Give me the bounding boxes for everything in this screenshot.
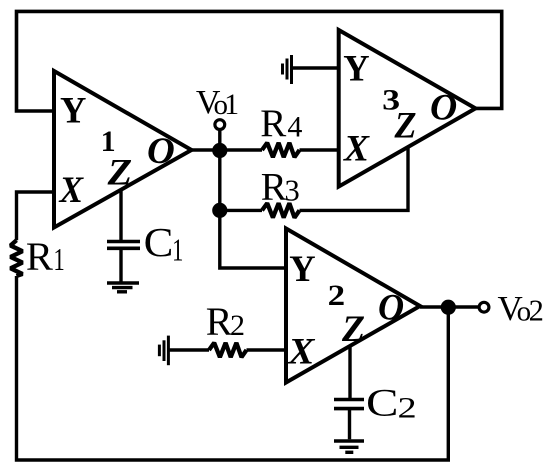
ground (C2, down-pointing): [334, 441, 364, 452]
svg-text:1: 1: [53, 242, 64, 277]
wire: node B to R3: [220, 209, 262, 212]
wire: ground to amp3 Y input: [292, 66, 339, 69]
svg-text:O: O: [430, 87, 457, 128]
wire: ground to R2: [168, 348, 209, 351]
op-amp U3 (CFOA 3): [339, 30, 476, 187]
resistor R1 (vertical zigzag): [11, 240, 23, 276]
wire: amp2 output O to Vo2 node and terminal: [420, 305, 478, 308]
node Vo2 (junction dot): [441, 300, 456, 315]
op-amp U2 (CFOA 2): [286, 229, 420, 383]
svg-text:R: R: [206, 299, 233, 344]
ground (amp3 Y input, left-pointing): [283, 55, 292, 84]
svg-text:R: R: [26, 234, 53, 279]
wire: amp3 output O to top rail, down left side to amp1 Y input: [17, 11, 502, 111]
svg-text:X: X: [59, 169, 85, 210]
svg-text:Y: Y: [289, 248, 315, 289]
wire: R4 to amp3 X input: [300, 148, 339, 151]
wire: amp1 X input to left column: [17, 192, 55, 240]
svg-text:O: O: [378, 287, 404, 328]
wire: R1 bottom to bottom rail, right to Vo2 node column: [17, 276, 449, 460]
svg-text:4: 4: [287, 111, 302, 144]
svg-text:3: 3: [285, 174, 300, 208]
wire: C2 to ground: [348, 409, 351, 440]
svg-text:2: 2: [230, 309, 245, 342]
terminal Vo2 (open circle): [479, 302, 489, 312]
capacitor C2 (plates): [334, 400, 364, 409]
wire: R3 to amp3 Z terminal: [300, 147, 409, 210]
wire: node A column down to amp2 Y input: [220, 130, 286, 268]
capacitor C1 (plates): [107, 242, 140, 249]
op-amp U1 (CFOA 1): [54, 71, 192, 228]
wire: amp1 Z terminal down to C1: [119, 190, 122, 240]
wire: C1 to ground: [119, 248, 122, 281]
node B (junction dot to R3): [212, 203, 227, 218]
svg-text:2: 2: [398, 392, 417, 425]
svg-text:Z: Z: [341, 308, 365, 349]
resistor R2 (horizontal zigzag): [209, 343, 247, 357]
svg-text:Y: Y: [60, 90, 86, 131]
svg-text:R: R: [260, 102, 286, 145]
svg-text:O: O: [147, 130, 175, 171]
node A (junction dot at Vo1): [212, 143, 227, 158]
wire: R2 to amp2 X input: [247, 348, 287, 351]
svg-text:C: C: [366, 382, 399, 425]
ground (R2, left-pointing): [159, 336, 168, 366]
svg-text:C: C: [144, 219, 174, 265]
terminal Vo1 (open circle): [215, 120, 225, 130]
wire: amp1 output O to node A: [192, 148, 263, 151]
svg-text:R: R: [261, 166, 287, 209]
svg-text:1: 1: [172, 232, 183, 268]
wire: amp2 Z terminal down to C2: [348, 345, 351, 398]
ground (C1, down-pointing): [107, 283, 139, 292]
svg-text:X: X: [343, 128, 371, 169]
svg-text:3: 3: [382, 84, 400, 117]
svg-text:X: X: [287, 331, 316, 372]
svg-text:Y: Y: [343, 48, 369, 89]
resistor R4 (horizontal zigzag): [262, 143, 300, 157]
resistor R3 (horizontal zigzag): [262, 203, 300, 217]
svg-text:1: 1: [224, 88, 239, 121]
svg-text:1: 1: [101, 125, 116, 158]
svg-text:2: 2: [328, 279, 346, 312]
svg-text:2: 2: [529, 294, 544, 328]
